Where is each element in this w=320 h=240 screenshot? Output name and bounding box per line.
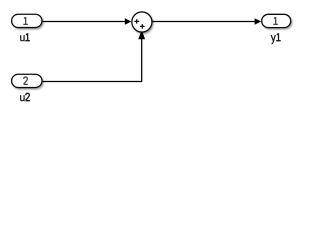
sum block (132, 12, 152, 32)
wire sum to y1 (153, 21, 256, 23)
arrowhead into outport y1 (255, 18, 261, 25)
inport u2 port number 2 (24, 77, 28, 84)
sum plus sign (left input) (134, 19, 139, 24)
arrowhead into sum left port (125, 18, 131, 25)
label y1 (271, 33, 281, 43)
inport u1 (12, 14, 42, 27)
arrowhead into sum bottom port (138, 32, 145, 39)
outport y1 port number 1 (273, 17, 278, 25)
wire u1 to sum (43, 21, 126, 23)
wire u2 to sum corner (43, 39, 142, 82)
label u1 (21, 33, 30, 41)
inport u2 (12, 74, 42, 87)
outport y1 (262, 14, 291, 27)
label u2 (21, 93, 30, 101)
sum plus sign (bottom input) (140, 24, 145, 29)
inport u1 port number 1 (23, 17, 28, 25)
